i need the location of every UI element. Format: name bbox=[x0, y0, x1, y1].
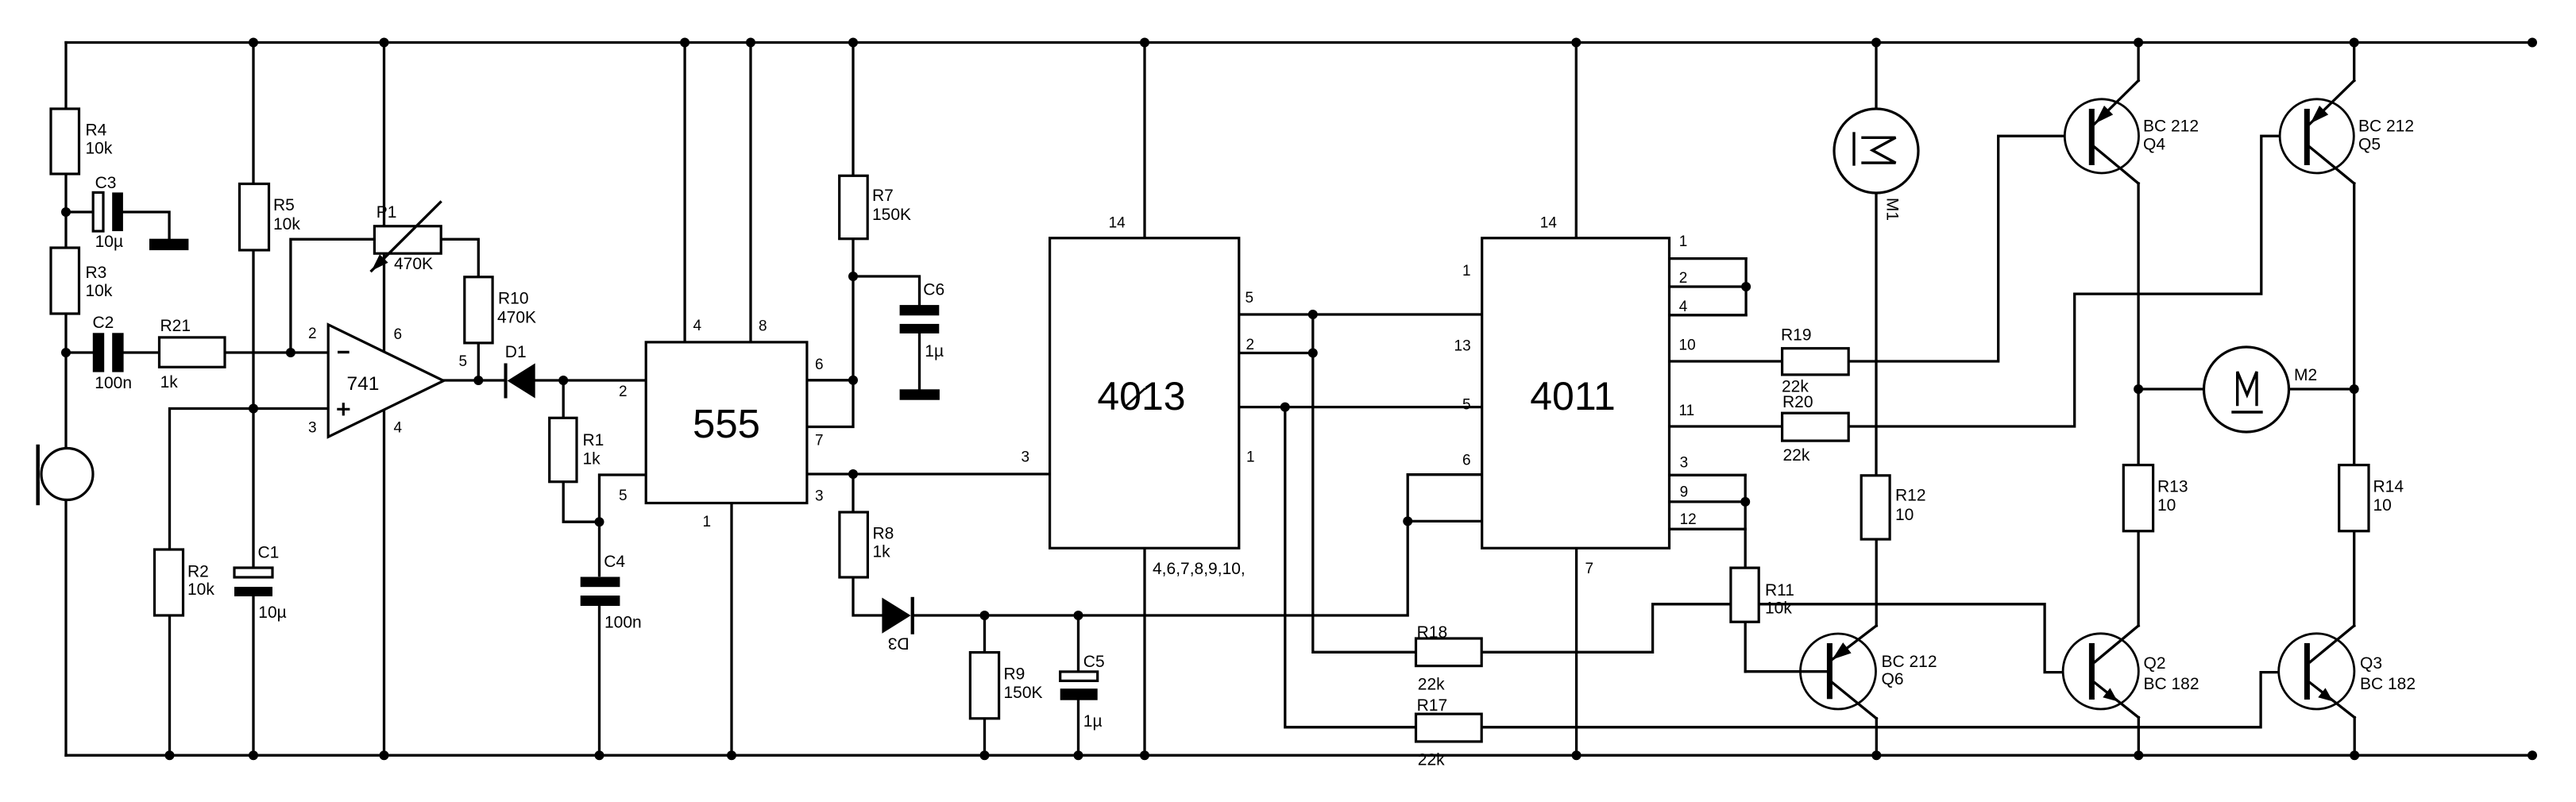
node at 4013 pin14 top rail bbox=[1140, 38, 1149, 48]
wire C6 branch bbox=[853, 276, 920, 305]
motor M2 body bbox=[2204, 347, 2289, 432]
wire 555 pin4 supply bbox=[683, 43, 686, 342]
motor M2 underline bbox=[2233, 411, 2261, 413]
svg-text:Q4: Q4 bbox=[2143, 136, 2165, 154]
wire 4011 pin3 stub bbox=[1670, 474, 1746, 476]
svg-text:1k: 1k bbox=[160, 373, 179, 391]
svg-text:R20: R20 bbox=[1782, 393, 1813, 411]
svg-text:7: 7 bbox=[815, 433, 824, 449]
ground bar at C6 bbox=[900, 389, 940, 399]
transistor Q4 emitter arrowhead bbox=[2095, 106, 2114, 124]
wire 555 pin1 ground bbox=[730, 503, 732, 756]
wire 4011 pin7 ground bbox=[1575, 548, 1578, 755]
svg-text:6: 6 bbox=[394, 326, 403, 343]
node 4013 output branch bbox=[1280, 403, 1290, 412]
wire 4011 pin9 stub bbox=[1670, 500, 1746, 503]
svg-text:10µ: 10µ bbox=[95, 233, 123, 251]
svg-text:R2: R2 bbox=[187, 562, 209, 580]
microphone MIC1 capsule bbox=[41, 449, 93, 500]
wire R21 to op-amp inverting input bbox=[225, 351, 328, 353]
svg-text:1k: 1k bbox=[583, 450, 601, 468]
potentiometer P1 arrow shaft bbox=[372, 202, 441, 271]
node 4011 pin6 jumper bbox=[1403, 516, 1412, 526]
wire P1 right to R10 top bbox=[441, 239, 478, 277]
resistor R4 bbox=[51, 109, 79, 174]
wire 4013 pin14 supply bbox=[1143, 43, 1145, 238]
node D1 R1 555 pin2 bbox=[558, 376, 568, 385]
resistor R7 bbox=[840, 175, 868, 238]
wire R2 bottom lead bbox=[168, 615, 171, 755]
svg-text:150K: 150K bbox=[1004, 684, 1043, 702]
op-amp U1 741 triangle bbox=[328, 325, 443, 437]
svg-text:BC 182: BC 182 bbox=[2360, 675, 2416, 693]
svg-text:R17: R17 bbox=[1417, 696, 1448, 715]
svg-text:10k: 10k bbox=[187, 580, 214, 599]
wire R10 bottom to output node bbox=[477, 343, 480, 380]
svg-text:22k: 22k bbox=[1418, 676, 1445, 694]
node 4011 pins 3-9-12 jumper bbox=[1740, 497, 1750, 507]
svg-text:555: 555 bbox=[693, 401, 760, 446]
node P1 wiper inverting input bbox=[286, 348, 295, 357]
wire R17 right to Q3 base bbox=[1481, 673, 2304, 727]
svg-text:Q2: Q2 bbox=[2144, 654, 2166, 673]
svg-text:R8: R8 bbox=[873, 525, 894, 543]
svg-text:BC 182: BC 182 bbox=[2144, 675, 2199, 693]
svg-text:C4: C4 bbox=[604, 553, 625, 571]
node at C1 ground bbox=[249, 750, 258, 760]
svg-text:BC 212: BC 212 bbox=[1882, 653, 1937, 671]
node 555 pin6 pin7 bbox=[848, 376, 858, 385]
svg-text:14: 14 bbox=[1540, 215, 1558, 232]
resistor R18 bbox=[1416, 638, 1482, 666]
wire vertical to R18 bbox=[1313, 314, 1416, 652]
node C2 junction bbox=[61, 348, 71, 357]
potentiometer P1 body bbox=[374, 226, 441, 253]
resistor R13 bbox=[2123, 465, 2153, 531]
transistor Q3 base bar bbox=[2304, 643, 2310, 700]
transistor Q5 collector diagonal bbox=[2310, 147, 2354, 183]
node at R9 ground bbox=[980, 750, 990, 760]
diode D3 triangle bbox=[882, 598, 910, 634]
capacitor C4 bottom plate bbox=[581, 596, 620, 606]
wire R20 right to Q5 base bbox=[1848, 136, 2304, 426]
node at R2 ground bbox=[165, 750, 175, 760]
node M2 right Q5 collector bbox=[2350, 384, 2359, 394]
wire D1 to 555 pin2 bbox=[535, 379, 647, 381]
svg-text:R5: R5 bbox=[273, 196, 295, 214]
svg-text:3: 3 bbox=[1680, 454, 1689, 471]
svg-text:5: 5 bbox=[1246, 290, 1254, 307]
wire R1 top lead bbox=[562, 380, 565, 418]
transistor Q6 collector diagonal bbox=[1833, 682, 1877, 718]
wire P1 wiper branch to inverting input bbox=[291, 239, 375, 353]
node at 555 pin4 top rail bbox=[680, 38, 689, 48]
svg-text:Q3: Q3 bbox=[2360, 654, 2382, 673]
transistor Q6 emitter arrowhead bbox=[1833, 642, 1852, 660]
svg-text:C3: C3 bbox=[95, 174, 117, 192]
wire R8 top lead bbox=[852, 474, 854, 512]
node C3 junction bbox=[61, 207, 71, 217]
capacitor C5 bottom plate bbox=[1060, 688, 1098, 700]
svg-text:10k: 10k bbox=[86, 282, 113, 300]
capacitor C3 left plate bbox=[93, 192, 103, 231]
resistor R19 bbox=[1782, 349, 1849, 375]
node at 4011 pin7 ground bbox=[1572, 750, 1582, 760]
resistor R1 bbox=[550, 418, 577, 481]
svg-text:10: 10 bbox=[1895, 506, 1914, 524]
IC U4 4011 body bbox=[1482, 238, 1670, 549]
wire C1 lower lead bbox=[252, 596, 254, 755]
svg-text:M1: M1 bbox=[1883, 198, 1902, 221]
node 4013 pin2 branch bbox=[1308, 349, 1318, 358]
svg-text:C1: C1 bbox=[258, 544, 280, 562]
transistor Q4 base bar bbox=[2089, 109, 2095, 165]
op-amp U1 minus sign bbox=[339, 351, 348, 353]
transistor Q5 emitter diagonal bbox=[2310, 81, 2354, 125]
svg-text:10k: 10k bbox=[86, 140, 113, 158]
diode D1 triangle bbox=[508, 364, 535, 399]
svg-text:3: 3 bbox=[815, 488, 824, 505]
wire R18 right to Q2 base bbox=[1481, 604, 2089, 673]
svg-text:2: 2 bbox=[1246, 337, 1255, 353]
wire R12 bottom to Q6 emitter bbox=[1875, 539, 1878, 626]
transistor Q3 collector diagonal bbox=[2311, 626, 2354, 662]
wire M2 right lead bbox=[2289, 388, 2354, 390]
node C5 top D3 line bbox=[1074, 611, 1083, 620]
svg-text:R13: R13 bbox=[2157, 478, 2188, 496]
node at Q3 emitter ground bbox=[2350, 750, 2359, 760]
resistor R21 bbox=[160, 337, 226, 367]
transistor Q6 base bar bbox=[1827, 643, 1833, 699]
wire C3 right lead to ground bar bbox=[123, 212, 169, 239]
svg-text:12: 12 bbox=[1680, 511, 1697, 528]
wire M2 left lead bbox=[2138, 388, 2203, 390]
node at 4011 pin14 top rail bbox=[1571, 38, 1581, 48]
wire R1 bottom lead to C4 node bbox=[563, 482, 599, 522]
svg-text:5: 5 bbox=[459, 353, 468, 370]
svg-text:3: 3 bbox=[308, 420, 317, 437]
node at 555 pin8 top rail bbox=[746, 38, 755, 48]
wire C4 bottom lead bbox=[598, 605, 601, 755]
potentiometer P1 arrowhead bbox=[372, 254, 388, 271]
node top rail right end bbox=[2528, 38, 2537, 48]
op-amp U1 plus sign bbox=[338, 408, 349, 411]
svg-text:10: 10 bbox=[2157, 496, 2176, 515]
svg-text:2: 2 bbox=[308, 326, 317, 342]
transistor Q2 emitter diagonal bbox=[2095, 683, 2139, 718]
wire 4011 pin8 jumper lower bbox=[1408, 520, 1482, 522]
motor M1 body bbox=[1834, 109, 1918, 193]
svg-text:4: 4 bbox=[394, 420, 403, 437]
wire jumper vertical pins 3-9-12 to R11 bbox=[1744, 475, 1747, 568]
svg-text:1: 1 bbox=[703, 514, 712, 530]
capacitor C1 top plate bbox=[234, 568, 272, 577]
node 4011 pins 1-2-4 jumper bbox=[1741, 282, 1751, 291]
resistor R17 bbox=[1416, 714, 1482, 742]
resistor R11 bbox=[1731, 568, 1759, 622]
diode D3 cathode bar bbox=[911, 597, 914, 634]
svg-text:1µ: 1µ bbox=[925, 342, 944, 361]
capacitor C1 bottom plate bbox=[234, 587, 272, 596]
wire R13 top lead bbox=[2137, 389, 2139, 465]
svg-text:10k: 10k bbox=[273, 215, 300, 233]
capacitor C5 top plate bbox=[1060, 672, 1098, 681]
ground bar at C3 bbox=[149, 239, 188, 250]
transistor Q3 emitter diagonal bbox=[2311, 683, 2355, 718]
transistor Q4 body bbox=[2064, 99, 2138, 173]
resistor R20 bbox=[1782, 413, 1849, 441]
motor M1 underline bar bbox=[1852, 133, 1855, 164]
svg-text:3: 3 bbox=[1022, 449, 1030, 466]
wire Q5 collector to M2 bbox=[2353, 183, 2355, 389]
svg-text:R1: R1 bbox=[583, 431, 604, 449]
svg-text:2: 2 bbox=[619, 384, 628, 400]
svg-text:R9: R9 bbox=[1004, 665, 1025, 683]
wire C6 bottom to ground bar bbox=[918, 334, 921, 389]
svg-text:10: 10 bbox=[2373, 496, 2392, 515]
svg-text:R4: R4 bbox=[86, 121, 107, 139]
node at Q6 collector ground bbox=[1871, 750, 1881, 760]
node bottom rail right end bbox=[2528, 750, 2537, 760]
wire right jumper vertical pins 1-2-4 bbox=[1744, 259, 1747, 315]
node R7 C6 bbox=[848, 272, 858, 281]
svg-text:10: 10 bbox=[1679, 337, 1696, 353]
transistor Q4 collector diagonal bbox=[2095, 147, 2138, 183]
capacitor C6 top plate bbox=[900, 305, 940, 315]
capacitor C2 left plate bbox=[93, 333, 104, 372]
wire 4011 pin11 to R20 bbox=[1670, 425, 1782, 427]
svg-text:R18: R18 bbox=[1417, 623, 1448, 642]
wire Q4 collector to M2 bbox=[2137, 183, 2139, 389]
svg-text:6: 6 bbox=[1462, 453, 1471, 469]
wire R8 bottom to D3 bbox=[853, 577, 882, 615]
wire 555 pin7 lead bbox=[807, 380, 853, 427]
transistor Q5 base bar bbox=[2304, 109, 2310, 165]
svg-text:22k: 22k bbox=[1418, 750, 1445, 769]
svg-text:14: 14 bbox=[1109, 215, 1126, 232]
svg-text:R19: R19 bbox=[1781, 326, 1812, 345]
wire Q4 emitter to rail bbox=[2137, 43, 2139, 81]
svg-text:10µ: 10µ bbox=[258, 603, 286, 622]
resistor R3 bbox=[51, 248, 79, 314]
svg-text:R12: R12 bbox=[1895, 487, 1926, 505]
wire Q6 base from R11 bbox=[1745, 670, 1827, 673]
svg-text:11: 11 bbox=[1679, 403, 1695, 419]
wire 555 pin3 to 4013 bbox=[807, 472, 1050, 475]
svg-text:Q6: Q6 bbox=[1882, 670, 1904, 688]
wire R13 bottom to Q2 collector bbox=[2137, 531, 2139, 626]
wire 4011 pin2 stub bbox=[1670, 285, 1747, 287]
svg-text:C5: C5 bbox=[1083, 653, 1105, 671]
transistor Q2 emitter arrowhead bbox=[2103, 688, 2118, 701]
transistor Q3 body bbox=[2279, 634, 2354, 709]
wire D3 cathode line to 4011 jumper bbox=[914, 475, 1408, 615]
transistor Q2 body bbox=[2063, 634, 2138, 709]
wire 4011 pin10 to R19 bbox=[1670, 360, 1782, 362]
wire 4013 bottom pins to ground bbox=[1143, 548, 1145, 755]
node at Q4 emitter top rail bbox=[2134, 38, 2143, 48]
wire R7 bottom to pin6 node bbox=[852, 239, 854, 380]
wire top supply rail bbox=[66, 41, 2532, 44]
motor M2 M glyph bbox=[2238, 372, 2257, 405]
svg-text:470K: 470K bbox=[497, 309, 536, 327]
svg-text:1µ: 1µ bbox=[1083, 712, 1103, 731]
wire 4013 pin2 lead bbox=[1239, 352, 1313, 354]
svg-text:9: 9 bbox=[1680, 484, 1689, 501]
wire R9 top lead bbox=[983, 615, 986, 653]
wire M1 R12 vertical bbox=[1875, 43, 1877, 476]
wire C3 left lead bbox=[66, 210, 93, 213]
node at R5 top rail bbox=[249, 38, 258, 48]
wire R11 bottom lead bbox=[1744, 622, 1747, 672]
svg-text:D3: D3 bbox=[888, 634, 910, 653]
svg-text:R7: R7 bbox=[872, 187, 894, 205]
svg-text:1: 1 bbox=[1462, 263, 1471, 280]
wire Q3 emitter to ground bbox=[2354, 718, 2356, 756]
svg-text:6: 6 bbox=[815, 357, 824, 373]
node at C5 ground bbox=[1074, 750, 1083, 760]
slash through 0 of 4013 bbox=[1126, 389, 1145, 406]
transistor Q4 emitter diagonal bbox=[2095, 81, 2138, 125]
wire op-amp non-inverting input bbox=[170, 409, 329, 550]
wire op-amp output to D1 bbox=[444, 379, 505, 381]
resistor R9 bbox=[970, 653, 998, 719]
node at R7 top rail bbox=[848, 38, 858, 48]
wire 555 pin8 supply bbox=[749, 43, 751, 342]
wire R19 right to Q4 base bbox=[1848, 136, 2089, 361]
svg-text:100n: 100n bbox=[604, 613, 642, 631]
wire 4011 pin1 stub bbox=[1670, 257, 1747, 260]
wire 4011 pin6 jumper upper bbox=[1408, 473, 1482, 476]
transistor Q5 emitter arrowhead bbox=[2311, 106, 2329, 124]
svg-text:2: 2 bbox=[1679, 270, 1688, 287]
svg-text:R10: R10 bbox=[498, 290, 529, 308]
node R9 top D3 line bbox=[980, 611, 990, 620]
svg-text:4013: 4013 bbox=[1097, 374, 1185, 418]
microphone MIC1 front bar bbox=[36, 446, 40, 503]
wire Q6 collector to ground bbox=[1875, 719, 1878, 755]
svg-text:C2: C2 bbox=[93, 314, 114, 332]
wire Q2 emitter to ground bbox=[2138, 718, 2140, 756]
wire C2 left lead bbox=[66, 351, 92, 353]
wire 4011 pin12 stub bbox=[1670, 528, 1746, 530]
node 555 pin3 R8 bbox=[848, 469, 858, 479]
capacitor C2 right plate bbox=[112, 333, 123, 372]
capacitor C6 bottom plate bbox=[900, 324, 940, 334]
resistor R10 bbox=[465, 277, 492, 343]
wire 555 pin5 branch bbox=[600, 475, 647, 576]
svg-text:741: 741 bbox=[347, 373, 380, 395]
wire bottom ground rail bbox=[66, 754, 2532, 757]
svg-text:BC 212: BC 212 bbox=[2143, 118, 2199, 136]
svg-text:5: 5 bbox=[619, 488, 628, 504]
IC U2 555 body bbox=[646, 342, 807, 503]
wire R7 top lead bbox=[852, 43, 854, 176]
svg-text:D1: D1 bbox=[505, 343, 527, 361]
svg-text:5: 5 bbox=[1462, 397, 1471, 414]
svg-text:R21: R21 bbox=[160, 317, 191, 335]
svg-text:1: 1 bbox=[1679, 233, 1688, 250]
wire 4013 output to 4011 pin5 bbox=[1239, 406, 1482, 408]
wire left vertical branch R4 R3 mic bbox=[64, 43, 67, 756]
svg-text:P1: P1 bbox=[377, 203, 397, 222]
node non-inverting input R5 bbox=[249, 404, 258, 414]
svg-text:150K: 150K bbox=[872, 206, 911, 224]
diode D1 cathode bar bbox=[504, 364, 508, 399]
svg-text:4: 4 bbox=[1679, 299, 1688, 315]
transistor Q6 emitter diagonal bbox=[1833, 626, 1877, 660]
wire 4013 pin5 to 4011 pin1 bbox=[1239, 313, 1482, 315]
node 4013 pin5 branch bbox=[1308, 310, 1318, 319]
svg-text:13: 13 bbox=[1454, 337, 1471, 354]
transistor Q6 body bbox=[1801, 634, 1876, 709]
wire vertical to R17 bbox=[1285, 407, 1416, 727]
svg-text:7: 7 bbox=[1585, 561, 1594, 577]
svg-text:R11: R11 bbox=[1765, 581, 1794, 600]
resistor R12 bbox=[1861, 476, 1890, 539]
svg-text:C6: C6 bbox=[923, 281, 944, 299]
svg-text:R3: R3 bbox=[86, 264, 107, 282]
wire 4011 pin4 stub bbox=[1670, 314, 1747, 316]
resistor R2 bbox=[155, 549, 183, 615]
transistor Q2 collector diagonal bbox=[2095, 626, 2139, 662]
wire R14 top lead bbox=[2353, 389, 2355, 465]
svg-text:470K: 470K bbox=[394, 255, 433, 273]
svg-text:4011: 4011 bbox=[1530, 374, 1616, 418]
motor M1 rotated M glyph bbox=[1863, 137, 1896, 163]
node at 555 pin1 ground bbox=[727, 750, 736, 760]
wire R9 bottom lead bbox=[983, 719, 986, 755]
resistor R14 bbox=[2339, 465, 2369, 531]
svg-text:1: 1 bbox=[1246, 449, 1255, 466]
wire C5 bottom lead bbox=[1077, 700, 1079, 756]
node op-amp output R10 bbox=[473, 376, 483, 385]
node R1 C4 pin5 bbox=[595, 517, 604, 526]
wire op-amp pin6 pin4 vertical bbox=[383, 43, 385, 756]
node at M1 top rail bbox=[1871, 38, 1881, 48]
node at C4 ground bbox=[595, 750, 604, 760]
wire C5 top lead bbox=[1077, 615, 1079, 672]
svg-text:R14: R14 bbox=[2373, 478, 2404, 496]
svg-text:100n: 100n bbox=[95, 374, 132, 392]
node at Q5 emitter top rail bbox=[2350, 38, 2359, 48]
wire R5 C1 vertical upper bbox=[252, 43, 254, 569]
svg-text:10k: 10k bbox=[1765, 600, 1792, 618]
svg-text:22k: 22k bbox=[1783, 446, 1810, 465]
resistor R8 bbox=[840, 512, 868, 577]
svg-text:M2: M2 bbox=[2294, 366, 2317, 384]
transistor Q5 body bbox=[2280, 99, 2354, 173]
svg-text:4,6,7,8,9,10,: 4,6,7,8,9,10, bbox=[1153, 560, 1246, 578]
wire R14 bottom to Q3 collector bbox=[2353, 531, 2355, 626]
wire 555 pin6 lead bbox=[807, 379, 853, 381]
svg-text:BC 212: BC 212 bbox=[2358, 118, 2414, 136]
node M2 left Q4 collector bbox=[2134, 384, 2143, 394]
svg-text:Q5: Q5 bbox=[2358, 136, 2381, 154]
wire 4011 pin14 supply bbox=[1575, 43, 1578, 238]
node at pin6 vertical top rail bbox=[380, 38, 389, 48]
capacitor C4 top plate bbox=[581, 577, 620, 588]
resistor R5 bbox=[240, 184, 269, 251]
svg-text:1k: 1k bbox=[873, 543, 891, 561]
capacitor C3 right plate bbox=[112, 192, 123, 231]
wire Q5 emitter to rail bbox=[2353, 43, 2355, 81]
svg-text:4: 4 bbox=[693, 318, 702, 334]
node at op-amp pin4 ground bbox=[380, 750, 389, 760]
wire C2 to R21 bbox=[125, 351, 160, 353]
node at Q2 emitter ground bbox=[2134, 750, 2143, 760]
transistor Q2 base bar bbox=[2089, 643, 2095, 700]
